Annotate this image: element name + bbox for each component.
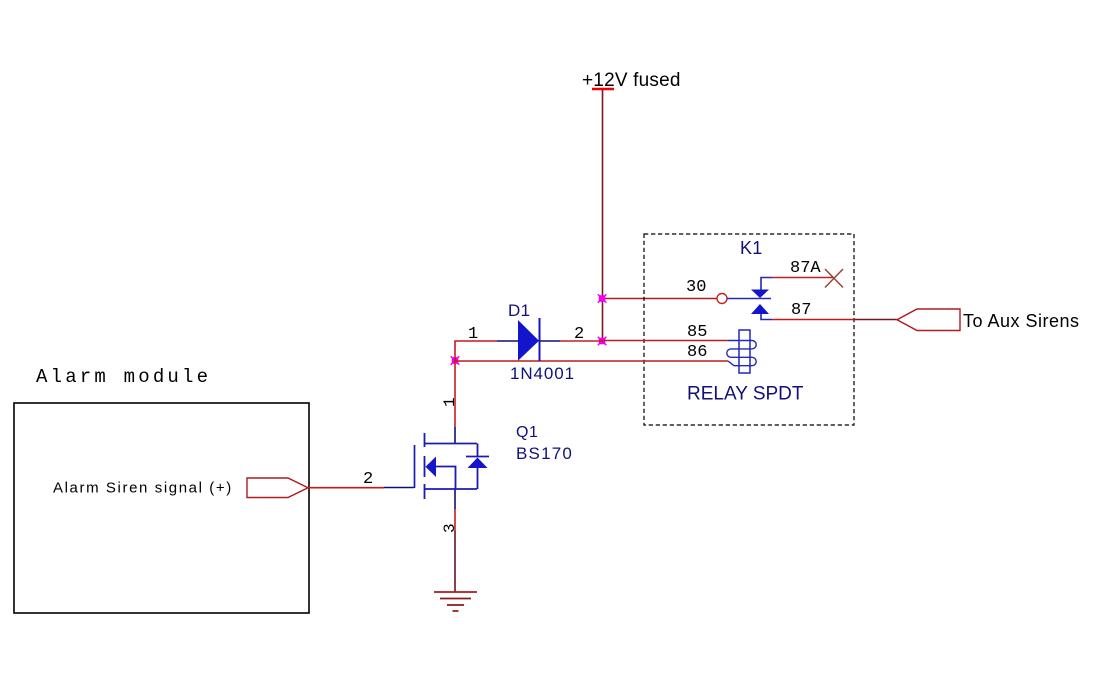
D1 anode pin stub <box>497 340 519 342</box>
svg-text:85: 85 <box>687 323 707 342</box>
relay K1 dashed box <box>644 234 854 425</box>
port connector Alarm Siren signal <box>247 478 308 498</box>
relay coil winding <box>727 341 756 366</box>
diode D1 triangle <box>518 320 539 361</box>
wire 86 <box>455 360 728 362</box>
transistor Q1 body diode triangle <box>468 458 488 469</box>
relay 87 branch vertical <box>761 314 772 320</box>
node junction at +12V / pin30 branch <box>598 294 607 303</box>
wire to relay pin 30 <box>602 298 717 300</box>
svg-text:1N4001: 1N4001 <box>510 364 575 383</box>
transistor Q1 body: gate bar <box>414 445 416 488</box>
svg-text:Alarm module: Alarm module <box>36 366 211 388</box>
ground symbol <box>434 592 477 611</box>
svg-text:Alarm Siren signal (+): Alarm Siren signal (+) <box>53 480 233 497</box>
svg-text:87A: 87A <box>790 259 821 278</box>
svg-text:87: 87 <box>791 301 811 320</box>
alarm module box <box>14 403 309 613</box>
transistor Q1 bulk arrow head <box>426 457 437 478</box>
Q1 source pin stub <box>454 489 456 509</box>
wire gate signal <box>308 487 384 489</box>
wire D1 cathode to +12V node <box>560 340 602 342</box>
relay 87A branch vertical <box>761 278 772 290</box>
svg-text:Q1: Q1 <box>516 424 538 441</box>
svg-text:86: 86 <box>687 343 707 362</box>
power port +12V bar <box>592 88 614 90</box>
svg-text:3: 3 <box>441 523 459 533</box>
Q1 drain pin stub <box>454 427 456 443</box>
node junction at +12V / D1 cathode / pin85 <box>598 337 607 346</box>
wire 87 inside box <box>772 319 854 321</box>
svg-text:RELAY SPDT: RELAY SPDT <box>687 384 804 405</box>
transistor Q1 body: channel dashes <box>424 433 426 499</box>
transistor Q1 body: drain bar <box>424 443 477 445</box>
wire 85 <box>602 340 728 342</box>
relay NO contact triangle (up) <box>751 304 769 314</box>
transistor Q1 body diode cathode bar <box>466 456 489 458</box>
Q1 gate pin stub <box>384 487 414 489</box>
pin 30 circle <box>717 294 727 304</box>
relay common contact line <box>727 298 771 300</box>
wire 87 to connector <box>854 319 897 321</box>
wire 87A <box>772 277 833 279</box>
svg-text:1: 1 <box>441 397 459 407</box>
port connector To Aux Sirens <box>897 309 960 331</box>
svg-text:D1: D1 <box>508 301 531 320</box>
svg-text:30: 30 <box>686 278 706 297</box>
wire Q1 drain <box>454 361 456 427</box>
relay NC contact triangle (down) <box>751 290 769 299</box>
svg-text:BS170: BS170 <box>516 444 573 463</box>
svg-text:K1: K1 <box>740 238 762 258</box>
svg-text:To Aux Sirens: To Aux Sirens <box>963 311 1080 331</box>
relay coil core rectangle <box>739 330 750 373</box>
no-connect X on 87A <box>825 269 843 288</box>
diode D1 cathode bar <box>539 318 541 361</box>
transistor Q1 body: source bar <box>424 488 477 490</box>
wire D1 anode side <box>455 341 497 361</box>
node junction at D1 anode / pin86 / Q1 drain <box>451 356 460 365</box>
svg-text:2: 2 <box>363 470 373 489</box>
transistor Q1 body diode branch <box>477 444 479 490</box>
transistor Q1 body: bulk arrow line <box>436 467 456 490</box>
wire Q1 source to ground lower <box>454 531 456 592</box>
wire +12V rail vertical <box>602 90 604 341</box>
wire Q1 source to ground upper <box>454 509 456 531</box>
D1 cathode pin stub <box>539 340 560 342</box>
